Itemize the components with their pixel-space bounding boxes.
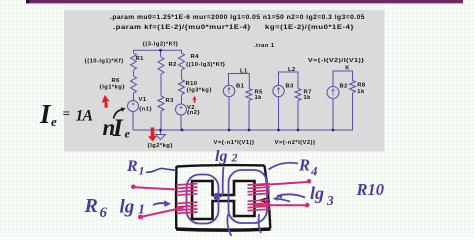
svg-text:L1: L1 — [240, 69, 248, 75]
svg-text:B1: B1 — [236, 83, 245, 89]
svg-text:L2: L2 — [288, 67, 296, 73]
svg-text:V1: V1 — [139, 97, 147, 103]
svg-text:B2: B2 — [340, 84, 348, 90]
svg-text:R: R — [84, 195, 98, 217]
svg-text:4: 4 — [310, 164, 318, 179]
svg-text:R4: R4 — [191, 54, 200, 60]
svg-text:R2: R2 — [169, 62, 177, 68]
svg-text:1k: 1k — [357, 89, 365, 95]
svg-text:{lg3*kg}: {lg3*kg} — [187, 88, 213, 94]
svg-text:R: R — [126, 158, 138, 175]
svg-text:B3: B3 — [286, 83, 295, 89]
svg-text:R6: R6 — [112, 78, 121, 84]
svg-text:e: e — [125, 127, 131, 141]
svg-text:R8: R8 — [357, 82, 366, 88]
svg-text:I: I — [112, 115, 124, 142]
svg-text:R3: R3 — [166, 98, 175, 104]
svg-text:lg: lg — [120, 197, 135, 218]
svg-text:R: R — [298, 156, 310, 175]
svg-text:lg: lg — [215, 148, 227, 165]
svg-text:V={-n2*I(V2)}: V={-n2*I(V2)} — [275, 140, 316, 146]
svg-text:e: e — [51, 114, 57, 129]
svg-text:{n2}: {n2} — [187, 110, 200, 116]
svg-text:2: 2 — [231, 151, 238, 165]
svg-text:lg: lg — [310, 183, 324, 203]
svg-text:6: 6 — [100, 205, 108, 221]
svg-text:.param kf=(1E-2)/{mu0*mur*1E-4: .param kf=(1E-2)/{mu0*mur*1E-4} — [113, 24, 251, 31]
svg-text:K: K — [345, 66, 350, 72]
svg-text:1A: 1A — [76, 108, 93, 125]
svg-text:{(10-lg3)*Kf}: {(10-lg3)*Kf} — [186, 62, 226, 68]
svg-text:V={-n1*I(V1)}: V={-n1*I(V1)} — [214, 140, 255, 146]
svg-text:{n1}: {n1} — [139, 107, 152, 113]
svg-text:{(10-lg1)*Kf}: {(10-lg1)*Kf} — [85, 59, 125, 65]
svg-text:R10: R10 — [186, 81, 198, 87]
svg-text:.param mu0=1.25*1E-6 mur=2000: .param mu0=1.25*1E-6 mur=2000 lg1=0.05 n… — [110, 14, 365, 21]
svg-text:3: 3 — [326, 193, 334, 208]
svg-text:.tran 1: .tran 1 — [254, 43, 275, 49]
svg-text:kg=(1E-2)/{mu0*1E-4}: kg=(1E-2)/{mu0*1E-4} — [265, 24, 354, 31]
svg-text:{(3-lg2)*Kf}: {(3-lg2)*Kf} — [143, 42, 179, 48]
svg-text:R10: R10 — [356, 180, 385, 199]
svg-text:1: 1 — [139, 164, 145, 178]
svg-text:R1: R1 — [136, 56, 145, 62]
svg-text:{lg2*kg}: {lg2*kg} — [148, 143, 174, 149]
svg-text:=: = — [63, 106, 70, 121]
svg-text:V={-I(V2)/I(V1)}: V={-I(V2)/I(V1)} — [308, 58, 365, 64]
svg-text:1k: 1k — [304, 95, 312, 101]
svg-text:1k: 1k — [255, 95, 263, 101]
svg-text:{lg1*kg}: {lg1*kg} — [100, 84, 126, 90]
